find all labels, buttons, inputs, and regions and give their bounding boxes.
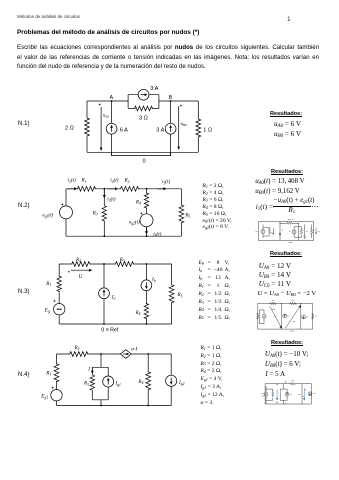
node n2 [146,188,148,190]
u arrow mini2 [273,228,275,235]
wire top rail N.4 [57,353,172,355]
svg-text:B: B [169,95,173,101]
junction dots bottom N.3 [103,323,105,325]
svg-text:R4: R4 [137,379,143,385]
node A vertical mini2 [279,222,281,241]
result eq N.2 i1 fraction [256,204,273,211]
current arrow i1 [68,188,75,190]
resistor R3 in box [90,375,94,390]
svg-text:R3: R3 [119,257,125,263]
junction dots bottom N.4 [100,405,102,407]
svg-text:1 Ω: 1 Ω [203,127,212,133]
wire branch R4 N.4 [147,354,149,406]
wire branch A [111,101,113,156]
parallel loop mini2 [263,227,270,236]
result eq N.2 uA0 [255,179,304,186]
node n2 N.4 [147,353,149,355]
node A vertical mini3 [281,304,283,330]
outer rect mini4 [265,384,311,404]
svg-text:i2(t): i2(t) [110,177,118,184]
problem label N.4 [18,372,30,378]
resistor mini2 left [268,229,270,235]
current source Ib [141,280,152,291]
svg-text:2 Ω: 2 Ω [65,125,74,131]
svg-text:3 Ω: 3 Ω [139,116,148,122]
node B vertical mini2 [297,223,299,240]
node B dot N.3 [146,263,148,265]
wire branch Ia [103,264,105,324]
resistor mini2 mid [300,229,302,235]
current arrow I [91,368,93,371]
box edges N.4 [92,367,108,400]
parallel box edges [128,95,159,109]
tiny labels mini2 [256,230,320,242]
resistor R5 [169,285,174,303]
wire left rail N.4 [56,354,58,406]
result eq N.3 U [258,291,317,298]
problem label N.1 [18,121,30,127]
svg-text:i3(t): i3(t) [107,196,115,203]
dependent source diamond [120,350,131,359]
paragraph line 2 [17,55,319,61]
junction dots bottom N.2 [103,235,105,237]
resistor R2 top N.4 [70,352,88,357]
current source Ig2 [166,375,177,386]
wire top rail N.3 [59,263,171,265]
svg-text:R1: R1 [45,371,51,377]
wire right rail N.1 [197,101,199,152]
node B [170,100,172,102]
Ib circle mini3 [302,315,306,319]
top resistor mini4 [290,383,295,385]
svg-text:Ig2: Ig2 [178,380,185,386]
result eq N.1 uA0 [274,121,301,128]
top resistor mini3 b [290,302,297,304]
mid source box mini4 [280,384,287,404]
left source box mini3 [259,310,264,324]
params list N.2 [203,183,232,231]
current arrow i3 [103,190,105,196]
svg-text:α·I: α·I [131,347,137,353]
svg-text:Eg1: Eg1 [40,394,48,400]
resistor R4 [144,304,148,319]
result eq N.3 UC0 [259,281,291,288]
header left [17,15,80,19]
svg-text:I: I [87,366,90,372]
resistor 2ohm [85,118,90,136]
svg-text:R4: R4 [135,310,141,316]
svg-text:U: U [79,274,83,280]
wire top rail N.2 [66,188,181,190]
current source Ia [99,288,110,299]
current arrow i2 [107,188,116,190]
svg-text:uA0: uA0 [103,112,109,118]
i arrow mini2 [304,225,306,239]
label mini2 top [288,219,294,221]
R label mini4 [298,393,300,395]
svg-text:i5(t): i5(t) [162,178,170,185]
stub to box top [100,354,102,367]
params list N.4 [201,345,225,407]
current source 6A [106,123,117,134]
svg-text:i1(t): i1(t) [68,177,76,184]
parallel loop mid mini2 [294,227,301,237]
top resistor mini2 [280,222,298,224]
outer rect mini3 [258,304,313,330]
stub box bottom to rail [100,400,102,406]
wire right rail N.2 [180,189,182,236]
paragraph line 1 [17,45,319,51]
svg-text:Ig1: Ig1 [114,381,121,387]
resistor R5 [179,205,184,223]
svg-text:R3: R3 [92,210,98,216]
svg-text:3 A: 3 A [156,127,164,133]
result eq N.3 UB0 [259,272,291,279]
results heading N.1 [270,112,302,118]
results heading N.2 [271,170,303,176]
result eq N.4 UB0 [265,361,301,368]
wire bottom rail N.1 [87,151,198,153]
left resistor mini3 [257,314,259,320]
params list N.3 (tabular) [198,261,200,324]
left box resistor mini4 [272,392,274,397]
node B vertical mini3 [300,304,302,330]
current source Ig1 [103,376,114,387]
wire bottom rail N.3 [59,323,171,325]
wire left rail N.3 [58,264,60,324]
svg-text:R1: R1 [45,281,51,287]
wire left rail N.2 [65,189,67,236]
svg-text:eg2(t): eg2(t) [129,218,140,225]
top resistor mini3 a [270,302,277,304]
voltage arrow U [71,269,90,271]
resistor 3ohm [135,106,153,111]
svg-text:Ia: Ia [111,294,116,300]
svg-text:Ib: Ib [151,277,156,283]
svg-text:A: A [110,95,114,101]
Ia circle mini3 [283,314,287,318]
source circle mid mini2 [293,227,295,237]
svg-text:R5: R5 [184,212,190,218]
page number [287,17,291,24]
title [17,30,199,36]
voltage source eg2 [140,214,153,227]
wire bottom rail N.2 [66,235,181,237]
node A [111,100,113,102]
diagonal arrow 1 mini3 [270,306,282,328]
result eq N.1 uB0 [274,131,301,138]
wire branch R3 [103,189,105,236]
current source 3A [138,89,149,100]
svg-text:R5: R5 [177,292,183,298]
result eq N.4 UA0 [265,351,308,358]
resistor R2 [121,186,139,191]
current arrow i4 [146,228,148,232]
svg-text:R1: R1 [81,178,87,184]
resistor mini2 right [311,225,313,239]
resistor 1ohm [196,119,201,137]
left source box mini4 [266,386,273,404]
resistor R3 [102,206,106,221]
resistor R4 [144,193,148,208]
wire bottom rail N.4 [57,405,172,407]
svg-text:R2: R2 [75,257,81,263]
voltage arrow uB0 [178,106,180,148]
resistor R1 [78,186,96,191]
svg-text:eg1(t): eg1(t) [42,212,53,219]
voltage source Eg1 [51,390,62,401]
wire branch B [170,101,172,156]
source circle left mini2 [262,225,264,239]
problem label N.3 [18,289,30,295]
svg-text:0 ≡ Ref: 0 ≡ Ref [101,328,118,334]
svg-text:R2: R2 [74,345,80,351]
voltage arrow uA0 [100,107,102,149]
voltage source Eg [54,304,65,315]
node 0 bracket [112,152,171,155]
wire right rail N.4 [170,354,172,406]
right circle mini4 [308,392,312,396]
result eq N.2 uB0 [255,189,300,196]
uB0 arrow right mini2 [315,228,317,235]
wire branch R4/eg2 [146,189,148,236]
resistor R3 top [116,262,134,267]
svg-text:R2: R2 [124,178,130,184]
blue annotations mini4 [276,381,306,403]
node n1 [103,188,105,190]
right resistor mini3 [312,314,314,320]
wire branch Ib R4 [145,264,147,324]
problem label N.2 [18,203,30,209]
voltage source eg1 [60,206,73,219]
node A dot N.3 [103,263,105,265]
result eq N.3 UA0 [259,263,291,270]
right node vertical mini4 [301,384,303,404]
paragraph line 3 [17,64,206,70]
svg-text:6 A: 6 A [120,127,128,133]
diagonal arrow 2 mini3 [286,305,301,328]
outer rect mini2 [259,222,314,241]
results heading N.4 [271,341,303,347]
svg-text:R4: R4 [135,200,141,206]
results heading N.3 [270,252,302,258]
svg-text:Eg: Eg [44,308,50,314]
svg-text:0: 0 [143,159,146,165]
resistor R2 top [72,262,90,267]
result eq N.4 I [265,371,285,378]
current arrow i5 [157,188,164,190]
resistor R1 left N.4 [54,364,59,382]
resistor R4 N.4 [146,372,151,390]
current source 3A right [165,123,176,134]
resistor R1 left [57,276,61,291]
node n1 N.4 [100,353,102,355]
wire top rail N.1 [87,100,198,102]
wire left rail N.1 [86,101,88,152]
tiny labels mini3 [272,310,317,332]
svg-text:uB0: uB0 [181,121,187,127]
svg-text:R3: R3 [83,381,89,387]
wire right rail N.3 [171,264,173,324]
svg-text:3 A: 3 A [150,86,158,92]
